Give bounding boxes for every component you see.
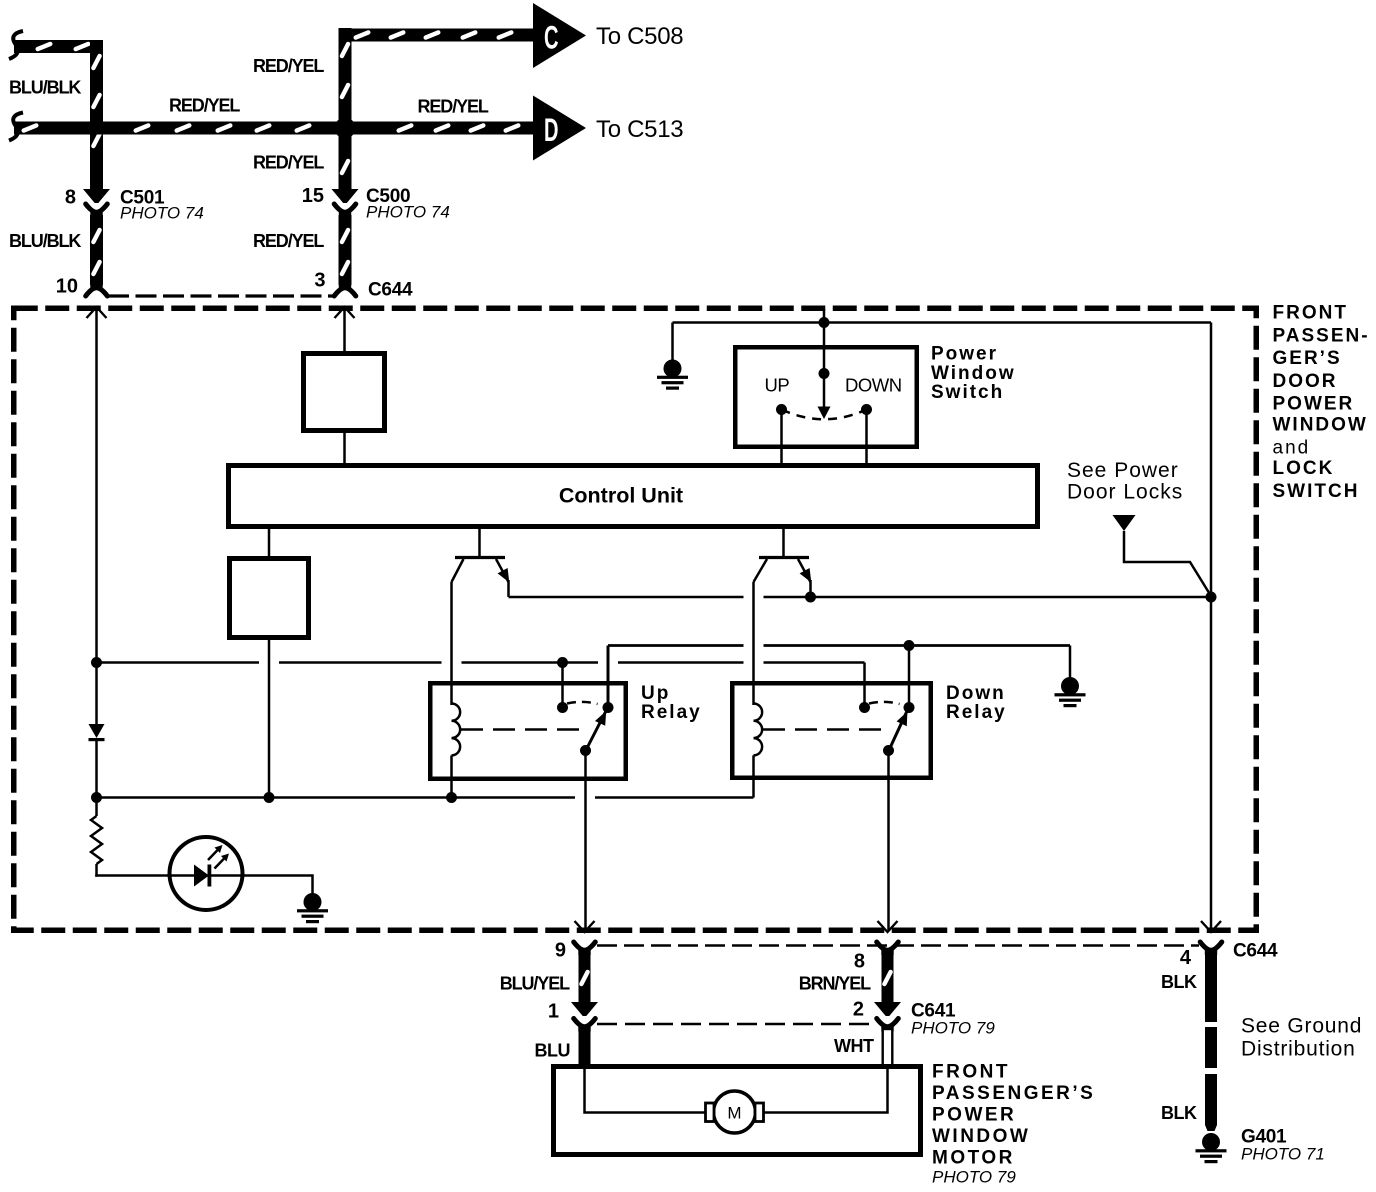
box B2 (unlabeled block) — [230, 559, 309, 638]
relay bus y645 — [608, 644, 1070, 647]
svg-text:9: 9 — [555, 940, 566, 962]
motor M1 — [706, 1091, 764, 1133]
svg-text:MOTOR: MOTOR — [932, 1148, 1015, 1169]
Down Relay box — [732, 683, 1006, 778]
lower bus wire y797 with hop at up relay output — [97, 796, 754, 799]
junction dot upper bus to up relay — [557, 657, 568, 668]
diode D1 — [89, 663, 105, 798]
svg-text:BLU: BLU — [535, 1041, 571, 1061]
svg-text:BLU/YEL: BLU/YEL — [500, 974, 570, 994]
switch wiper feed — [818, 323, 831, 420]
svg-text:FRONT: FRONT — [1273, 303, 1348, 324]
svg-text:BLU/BLK: BLU/BLK — [9, 231, 81, 251]
svg-text:BLU/BLK: BLU/BLK — [9, 78, 81, 98]
resistor R1 — [91, 798, 102, 877]
svg-text:PHOTO 79: PHOTO 79 — [911, 1019, 995, 1038]
connector cup pin 4 — [1200, 942, 1222, 955]
svg-text:Relay: Relay — [641, 702, 702, 723]
arrow out at pin 9 — [575, 921, 595, 932]
wire Control Unit to box B2 — [268, 527, 271, 558]
junction dot switch feed — [819, 317, 830, 328]
Front Passenger's Power Window Motor box — [554, 1067, 921, 1155]
svg-text:3: 3 — [314, 270, 325, 292]
See Power Door Locks label — [1067, 459, 1183, 504]
svg-text:See Power: See Power — [1067, 459, 1179, 482]
junction dot main — [335, 118, 356, 139]
transistor Q1 — [452, 527, 510, 597]
connector line C644 top — [108, 294, 336, 297]
arrow C to C508 — [533, 3, 586, 68]
ground G401 — [1196, 1133, 1227, 1163]
svg-text:D: D — [544, 112, 559, 148]
svg-text:C: C — [544, 20, 559, 56]
svg-text:FRONT: FRONT — [932, 1062, 1010, 1083]
arrow out at pin 8 — [878, 921, 898, 932]
connector C641 pin 2 — [874, 1002, 901, 1032]
up relay left contact — [557, 663, 568, 714]
svg-text:PHOTO 79: PHOTO 79 — [932, 1168, 1016, 1187]
up relay contact dashed gap — [567, 702, 598, 704]
up relay link dashed — [461, 728, 581, 731]
svg-text:RED/YEL: RED/YEL — [253, 153, 324, 173]
junction dot B2 bus — [264, 792, 275, 803]
down relay armature — [883, 710, 908, 756]
wire resistor to LED — [95, 874, 194, 877]
svg-text:Power: Power — [931, 344, 998, 365]
wire B2 down to lower bus — [268, 637, 271, 798]
transistor Q2 — [754, 527, 812, 597]
svg-text:15: 15 — [302, 185, 324, 207]
svg-text:M: M — [727, 1104, 741, 1123]
svg-text:Down: Down — [946, 683, 1006, 704]
svg-text:2: 2 — [853, 999, 864, 1021]
svg-text:PASSENGER’S: PASSENGER’S — [932, 1083, 1095, 1104]
connector line C641 — [597, 1023, 874, 1026]
power window switch feed wire — [673, 309, 1212, 360]
connector C500 — [332, 189, 359, 217]
down relay coil — [754, 704, 763, 798]
ground G-relay — [1055, 646, 1086, 708]
wire from pin 3 to box B1 — [343, 309, 346, 351]
junction dot up relay coil bus — [446, 792, 457, 803]
wire RED/YEL to D arrow — [345, 122, 534, 135]
wire from pin 10 down left side — [95, 309, 98, 663]
svg-text:LOCK: LOCK — [1273, 458, 1335, 479]
wire BLU — [579, 1030, 591, 1066]
svg-text:Switch: Switch — [931, 382, 1004, 403]
See Ground Distribution label — [1241, 1015, 1362, 1061]
svg-text:WINDOW: WINDOW — [932, 1126, 1030, 1147]
arrow into box at pin 10 — [87, 307, 107, 318]
wire RED/YEL down from junction — [339, 128, 352, 190]
svg-text:To C508: To C508 — [596, 23, 683, 50]
wire Q2 emitter to down relay coil — [752, 582, 755, 705]
junction dot right bus — [1206, 592, 1217, 603]
wire BLK dashed heavy — [1205, 953, 1217, 1131]
wire WHT — [883, 1029, 893, 1066]
dashed border of FRONT PASSENGER'S DOOR POWER WINDOW and LOCK SWITCH — [14, 308, 1257, 930]
svg-text:DOOR: DOOR — [1273, 371, 1338, 392]
svg-text:WHT: WHT — [834, 1036, 874, 1056]
wire RED/YEL vertical up to C — [339, 28, 352, 128]
wire Q1 emitter to up relay coil — [450, 582, 453, 705]
junction dot relay bus to down relay — [904, 640, 915, 651]
svg-text:RED/YEL: RED/YEL — [253, 56, 324, 76]
svg-text:POWER: POWER — [1273, 394, 1355, 415]
svg-text:See Ground: See Ground — [1241, 1015, 1362, 1038]
svg-text:Door Locks: Door Locks — [1067, 481, 1183, 504]
svg-text:PHOTO 74: PHOTO 74 — [366, 203, 450, 222]
down relay output wire — [887, 751, 890, 931]
svg-text:BLK: BLK — [1161, 972, 1197, 992]
svg-text:To C513: To C513 — [596, 116, 683, 143]
svg-text:BLK: BLK — [1161, 1103, 1197, 1123]
FRONT PASSENGER'S POWER WINDOW MOTOR label — [932, 1062, 1095, 1187]
down relay right contact — [904, 646, 915, 714]
collector bus y597 — [509, 596, 1212, 599]
svg-text:GER’S: GER’S — [1273, 348, 1342, 369]
connector cup pin 9 — [574, 942, 596, 955]
wire BLU/BLK top horizontal — [9, 31, 103, 59]
svg-text:C644: C644 — [368, 280, 413, 301]
svg-text:Distribution: Distribution — [1241, 1038, 1356, 1061]
upper bus wire y662 with hops — [97, 661, 865, 664]
switch wiper arc dashed — [782, 410, 867, 420]
box B1 (unlabeled block) — [304, 354, 385, 431]
UP contact — [765, 375, 790, 466]
svg-text:RED/YEL: RED/YEL — [418, 97, 489, 117]
arrow D to C513 — [533, 96, 586, 161]
arrow out at pin 4 — [1201, 921, 1221, 932]
Up Relay box — [430, 683, 701, 779]
svg-text:8: 8 — [65, 187, 76, 209]
svg-text:RED/YEL: RED/YEL — [253, 231, 324, 251]
svg-text:Relay: Relay — [946, 702, 1007, 723]
ground G-switch — [657, 360, 688, 390]
svg-text:RED/YEL: RED/YEL — [169, 96, 240, 116]
LED indicator — [170, 837, 243, 910]
junction dot left upper bus — [91, 657, 102, 668]
svg-text:WINDOW: WINDOW — [1273, 415, 1368, 436]
connector end pin 3 — [334, 283, 356, 296]
wire BLU/BLK lower vertical — [90, 215, 103, 285]
svg-text:4: 4 — [1180, 947, 1192, 969]
svg-text:POWER: POWER — [932, 1105, 1016, 1126]
connector end pin 10 — [86, 283, 108, 296]
svg-text:1: 1 — [548, 1001, 559, 1023]
up relay output wire — [584, 751, 587, 931]
motor internal wire right — [764, 1066, 888, 1113]
svg-text:Control Unit: Control Unit — [559, 484, 683, 508]
down relay contact dashed gap — [869, 702, 900, 704]
up relay right contact — [603, 646, 614, 714]
up relay armature — [580, 710, 607, 756]
junction dot left lower bus — [91, 792, 102, 803]
wire B1 to Control Unit — [343, 431, 346, 465]
wire RED/YEL main horizontal — [9, 113, 345, 141]
connector C501 — [83, 189, 110, 217]
svg-text:Window: Window — [931, 363, 1016, 384]
svg-text:UP: UP — [765, 375, 790, 396]
svg-text:PASSEN-: PASSEN- — [1273, 326, 1370, 347]
svg-text:and: and — [1273, 438, 1311, 459]
DOWN contact — [845, 375, 902, 466]
wire BLU/YEL — [578, 953, 590, 1004]
wire RED/YEL below C500 — [339, 215, 352, 285]
right vertical wire — [1210, 323, 1213, 932]
svg-text:8: 8 — [854, 951, 865, 973]
connector cup pin 8 — [877, 942, 899, 955]
connector line C644 bottom — [597, 944, 1199, 947]
svg-text:SWITCH: SWITCH — [1273, 481, 1360, 502]
svg-text:Up: Up — [641, 683, 670, 704]
svg-text:PHOTO 71: PHOTO 71 — [1241, 1145, 1325, 1164]
svg-text:C644: C644 — [1233, 941, 1278, 962]
see power door locks arrow — [1113, 515, 1212, 596]
svg-text:PHOTO 74: PHOTO 74 — [120, 204, 204, 223]
svg-text:DOWN: DOWN — [845, 375, 902, 396]
wire BLU/BLK vertical — [90, 40, 103, 190]
Control Unit box — [229, 466, 1038, 527]
up relay coil — [452, 704, 461, 798]
FRONT PASSENGER'S DOOR label block — [1273, 303, 1370, 503]
junction dot Q2 collector — [805, 592, 816, 603]
motor internal wire left — [585, 1066, 706, 1113]
svg-text:BRN/YEL: BRN/YEL — [799, 974, 871, 994]
ground G-LED — [297, 893, 328, 923]
wire RED/YEL horizontal to C arrow — [339, 29, 535, 42]
connector C641 pin 1 — [571, 1002, 598, 1032]
Power Window Switch box — [735, 344, 1015, 447]
svg-text:10: 10 — [56, 276, 78, 298]
arrow into box at pin 3 — [335, 307, 355, 318]
down relay left contact — [859, 663, 870, 714]
down relay link dashed — [763, 728, 884, 731]
wire BRN/YEL — [881, 953, 893, 1004]
wire LED to ground — [242, 876, 313, 895]
